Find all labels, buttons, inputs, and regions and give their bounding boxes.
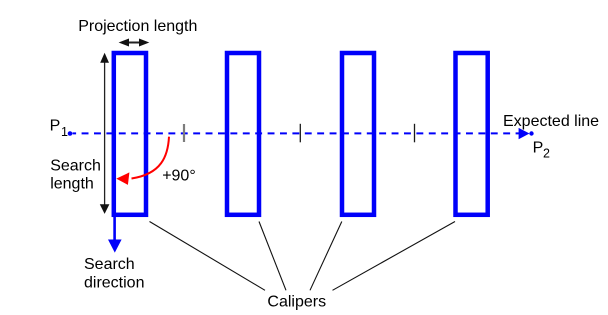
projection length double arrow (119, 39, 150, 47)
search length double arrow (100, 53, 110, 214)
pointer line from caliper 1 (150, 222, 266, 291)
svg-text:1: 1 (61, 125, 68, 139)
tick 1 (183, 124, 185, 142)
pointer line from caliper 4 (333, 222, 456, 291)
svg-text:Search: Search (50, 158, 101, 175)
pointer line from caliper 2 (259, 222, 286, 291)
pointer line from caliper 3 (310, 222, 342, 291)
svg-text:length: length (50, 175, 94, 192)
caliper box 4 (456, 53, 488, 215)
red arrowhead (116, 172, 129, 185)
svg-text:2: 2 (543, 147, 550, 161)
expected line (dashed) (73, 132, 520, 134)
node P1 dot (68, 131, 73, 136)
svg-text:Search: Search (84, 256, 135, 273)
svg-text:Calipers: Calipers (267, 293, 326, 310)
node P2 dot (529, 131, 533, 135)
expected line arrowhead (519, 128, 530, 139)
search direction arrow (blue) (108, 217, 122, 253)
svg-text:P: P (50, 118, 61, 135)
tick 2 (299, 124, 301, 143)
svg-text:direction: direction (84, 275, 144, 292)
caliper box 3 (342, 53, 374, 215)
svg-text:Projection length: Projection length (78, 18, 197, 35)
tick 3 (414, 124, 416, 143)
svg-text:Expected line: Expected line (503, 113, 599, 130)
svg-text:+90°: +90° (162, 168, 196, 185)
caliper box 2 (227, 53, 259, 215)
caliper box 1 (114, 53, 146, 215)
+90 degree rotation arc (red) (132, 137, 170, 179)
svg-text:P: P (533, 140, 544, 157)
